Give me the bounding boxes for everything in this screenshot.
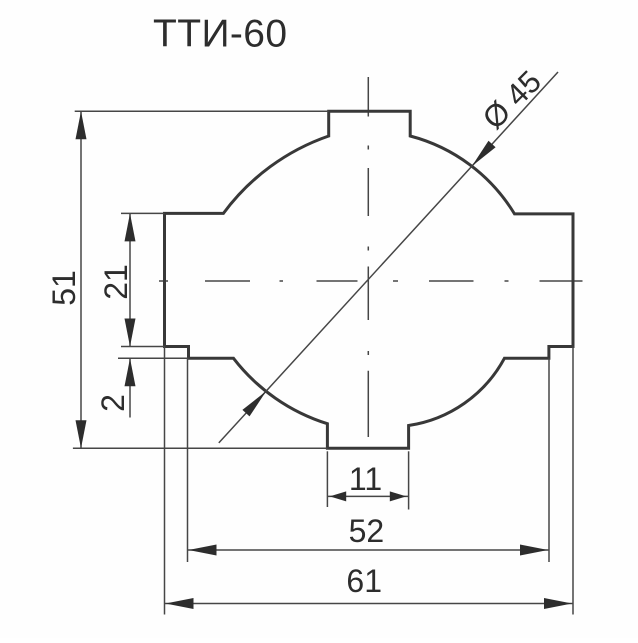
dimension line 52 (188, 549, 550, 551)
extension line 52 right (548, 358, 550, 562)
arrow 2 (125, 358, 136, 386)
arrow 21 bottom (125, 319, 136, 347)
arrow 52 right (520, 545, 548, 556)
extension line 61 right (572, 347, 574, 615)
dimension line 51 (80, 111, 82, 448)
dimension line 61 (165, 603, 574, 605)
arrow 52 left (189, 545, 217, 556)
arrow 11 right (390, 491, 407, 501)
extension line top (51) (75, 110, 329, 112)
extension line 11 left (326, 451, 328, 507)
svg-text:61: 61 (346, 563, 382, 599)
extension line 61 left (164, 347, 166, 615)
arrow 21 top (125, 213, 136, 241)
arrow 51 bottom (76, 420, 87, 448)
extension line 52 left (187, 358, 189, 562)
arrow 51 top (76, 111, 87, 139)
vertical centerline (367, 77, 369, 437)
arrow 61 left (166, 598, 194, 609)
svg-text:51: 51 (46, 270, 82, 306)
diameter leader line (219, 72, 558, 443)
svg-text:11: 11 (349, 461, 382, 497)
arrow diameter top-right (472, 141, 496, 166)
arrow 11 left (330, 491, 347, 501)
body outline (165, 111, 574, 448)
dimension 2 leader shaft (129, 358, 131, 417)
extension line 2 bottom (118, 357, 189, 359)
extension line bottom (51) (73, 447, 328, 449)
svg-text:ТТИ-60: ТТИ-60 (153, 13, 287, 56)
svg-text:2: 2 (95, 394, 131, 412)
extension line 21 top (121, 212, 165, 214)
horizontal centerline (159, 280, 583, 282)
arrow diameter bottom-left (242, 391, 266, 416)
dimension line 21 (129, 213, 131, 346)
svg-text:21: 21 (98, 264, 134, 300)
dimension line 11 (327, 495, 408, 497)
extension line 11 right (408, 451, 410, 509)
extension line 21 bottom / 2 top (121, 346, 165, 348)
arrow 61 right (544, 598, 572, 609)
svg-text:52: 52 (349, 513, 385, 549)
